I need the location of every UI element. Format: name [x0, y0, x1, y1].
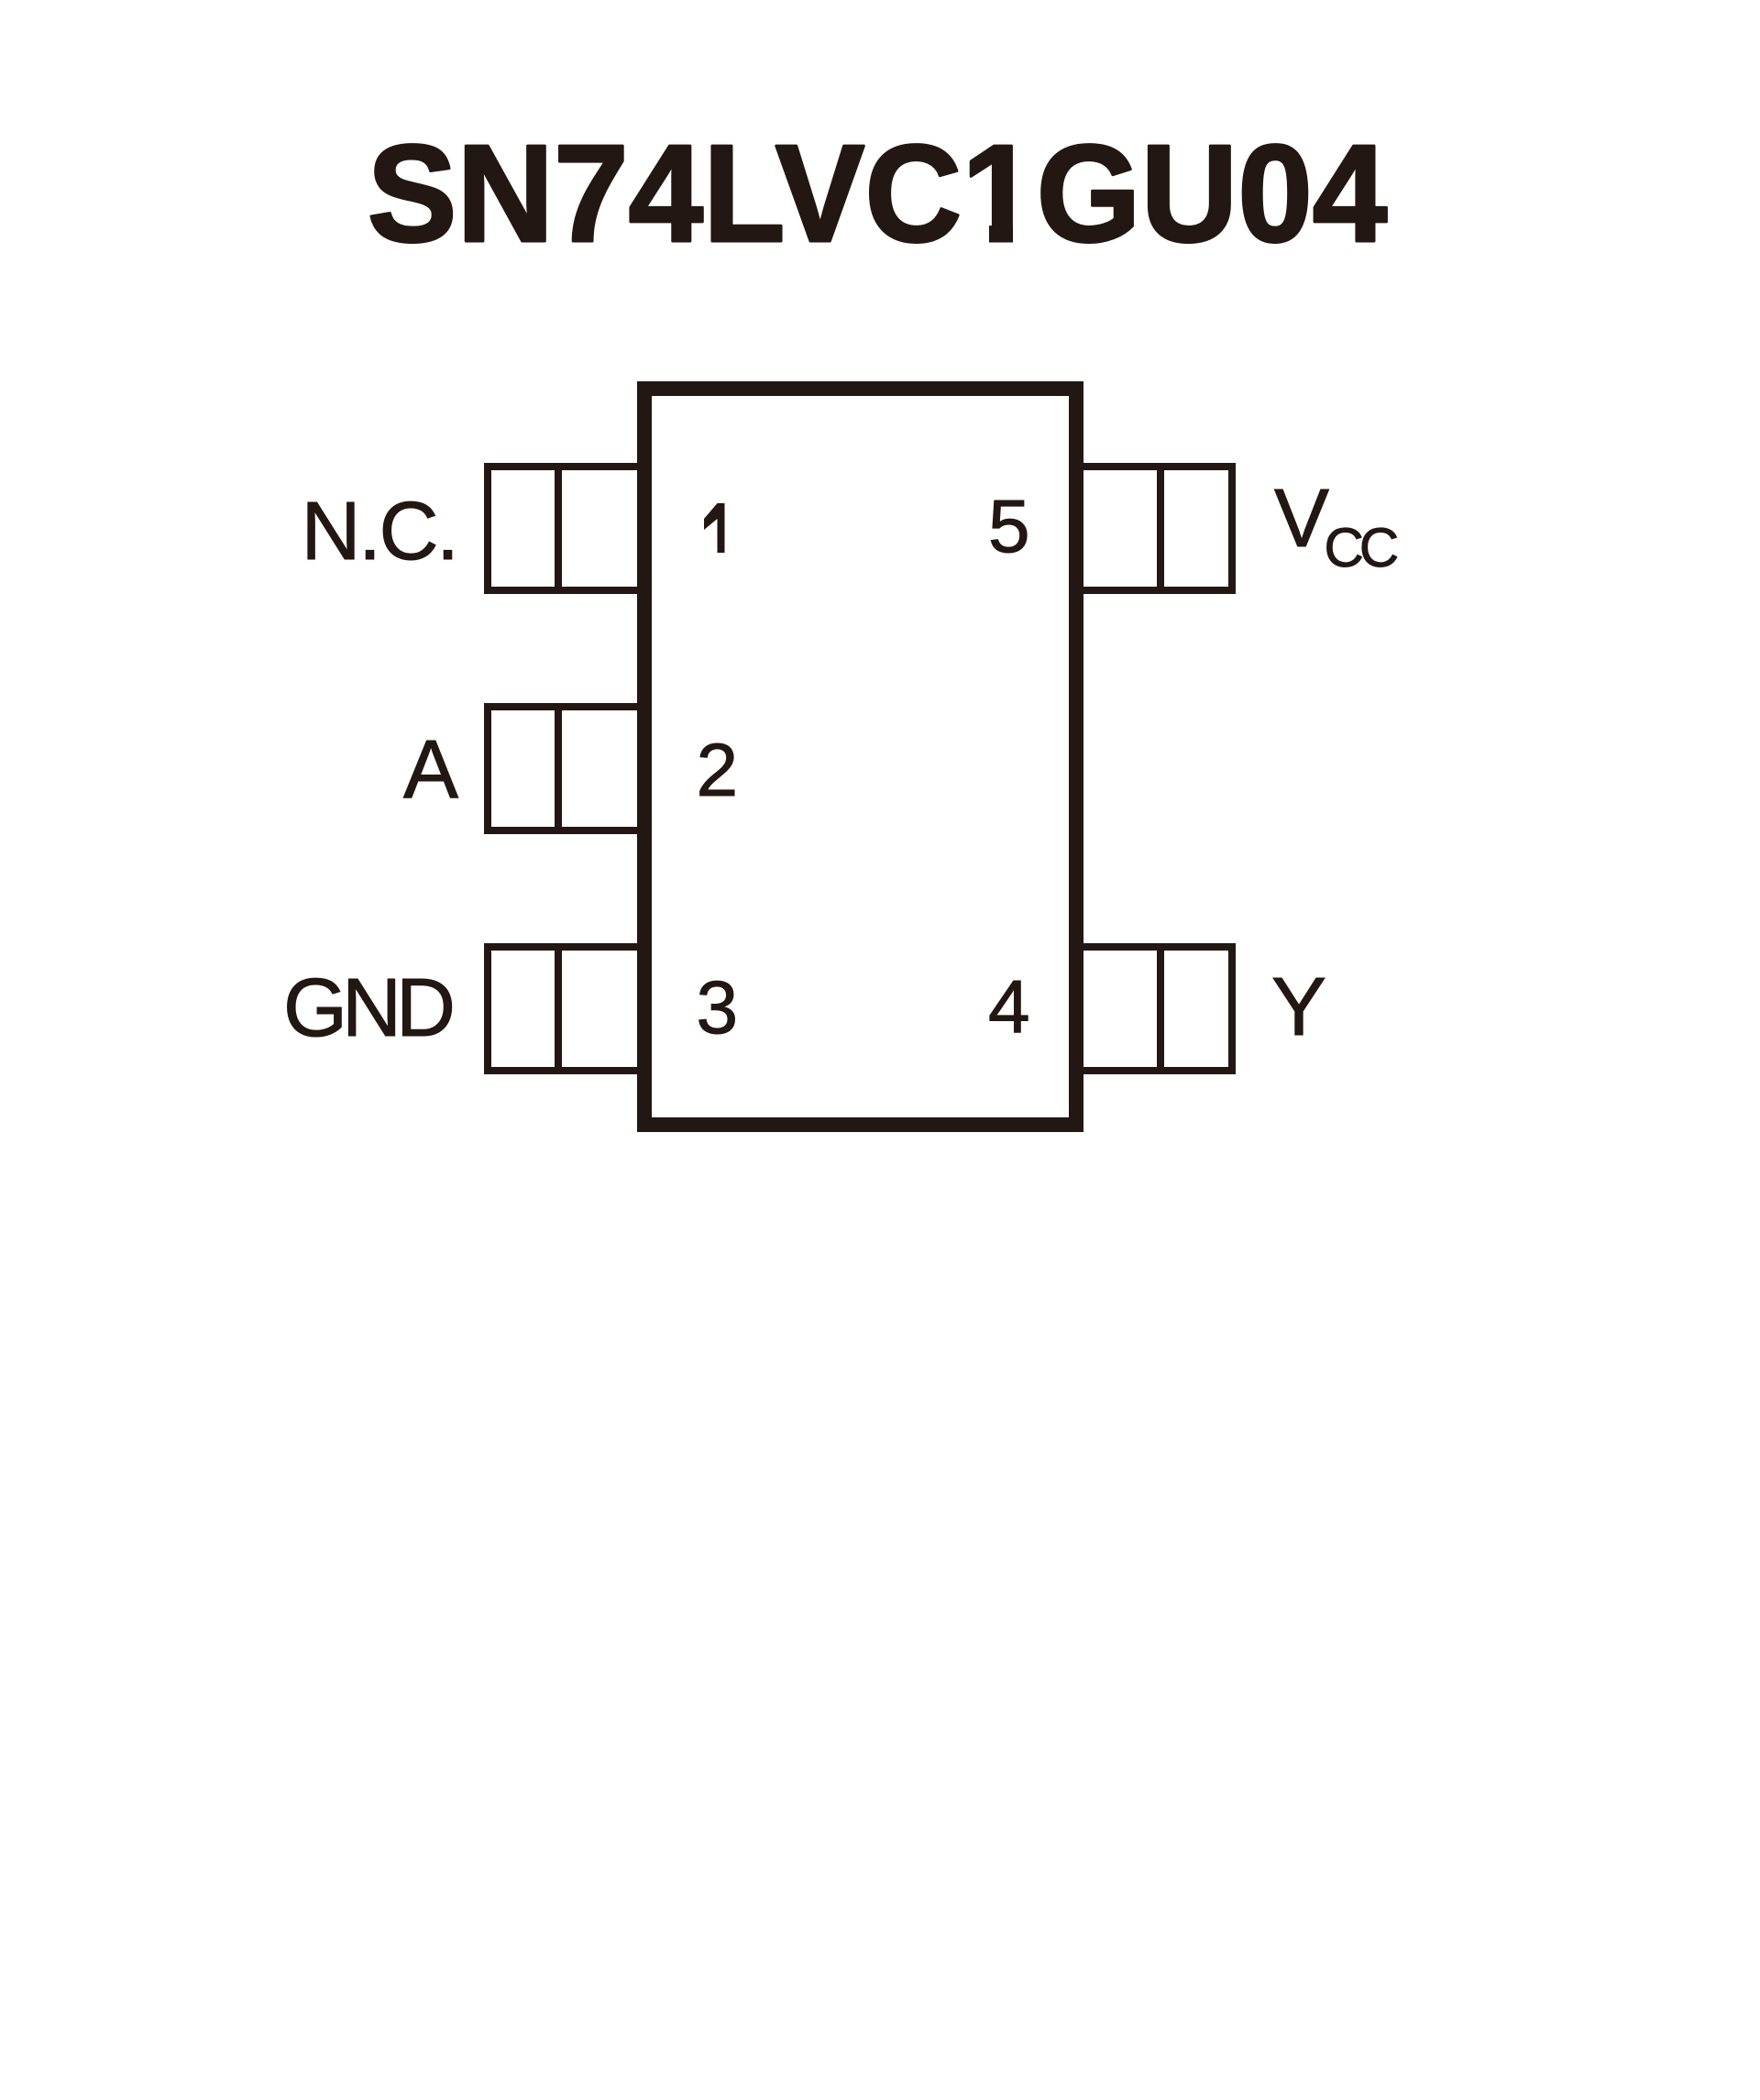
net label A	[403, 724, 458, 816]
svg-text:3: 3	[697, 966, 739, 1050]
pin 2 pad (A)	[488, 703, 648, 834]
pin number 2	[697, 729, 739, 812]
pin 5 pad (VCC)	[1072, 463, 1232, 594]
svg-text:4: 4	[988, 965, 1030, 1049]
net label GND	[283, 962, 452, 1054]
pin 1 pad (N.C.)	[488, 463, 648, 594]
svg-text:N.C.: N.C.	[302, 486, 457, 577]
net label N.C.	[302, 486, 457, 577]
pin number 5	[988, 485, 1030, 568]
pin number 4	[988, 965, 1030, 1049]
net label VCC	[1274, 473, 1398, 578]
pin number 3	[697, 966, 739, 1050]
svg-text:SN74LVC1GU04: SN74LVC1GU04	[368, 115, 1388, 271]
net label Y	[1271, 962, 1326, 1053]
title SN74LVC1GU04	[368, 115, 1388, 271]
pin 3 pad (GND)	[488, 943, 648, 1074]
svg-text:2: 2	[697, 729, 739, 812]
svg-text:Y: Y	[1271, 962, 1326, 1053]
pin 4 pad (Y)	[1072, 943, 1232, 1074]
IC body U1	[644, 389, 1076, 1125]
svg-text:V: V	[1274, 473, 1329, 565]
svg-text:A: A	[403, 724, 458, 816]
pin number 1	[704, 503, 725, 553]
svg-text:5: 5	[988, 485, 1030, 568]
svg-text:CC: CC	[1325, 517, 1398, 578]
svg-text:GND: GND	[283, 962, 452, 1054]
